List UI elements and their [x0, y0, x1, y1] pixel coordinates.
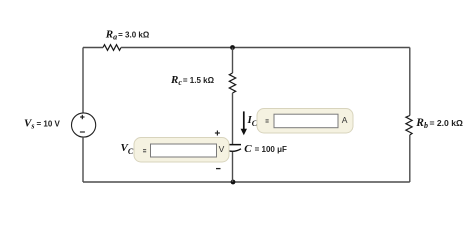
resistor Rb: [406, 116, 412, 136]
node top junction: [230, 45, 235, 50]
svg-text:V: V: [219, 144, 225, 154]
resistor Ra: [103, 45, 121, 51]
wire right upper: [409, 48, 411, 116]
wire middle lower: [232, 152, 234, 182]
wire right lower: [409, 135, 411, 182]
node bottom junction: [231, 180, 236, 185]
wire middle mid: [232, 93, 234, 145]
input group Vc: [134, 138, 229, 163]
wire left lower: [82, 137, 84, 182]
capacitor C: [224, 145, 241, 152]
wire bottom: [83, 181, 410, 183]
capacitor minus polarity: [216, 168, 221, 170]
voltage source Vs: [72, 113, 96, 137]
resistor Rc: [229, 73, 235, 93]
svg-text:C= 100 μF: C= 100 μF: [244, 143, 287, 155]
arrow Ic current: [241, 111, 247, 135]
input group Ic: [257, 109, 353, 134]
wire middle upper: [232, 48, 234, 74]
wire top-right segment: [121, 47, 410, 49]
wire top-left segment: [83, 47, 103, 49]
capacitor plus polarity: [215, 131, 220, 136]
wire left upper: [82, 48, 84, 114]
svg-text:A: A: [342, 115, 348, 125]
